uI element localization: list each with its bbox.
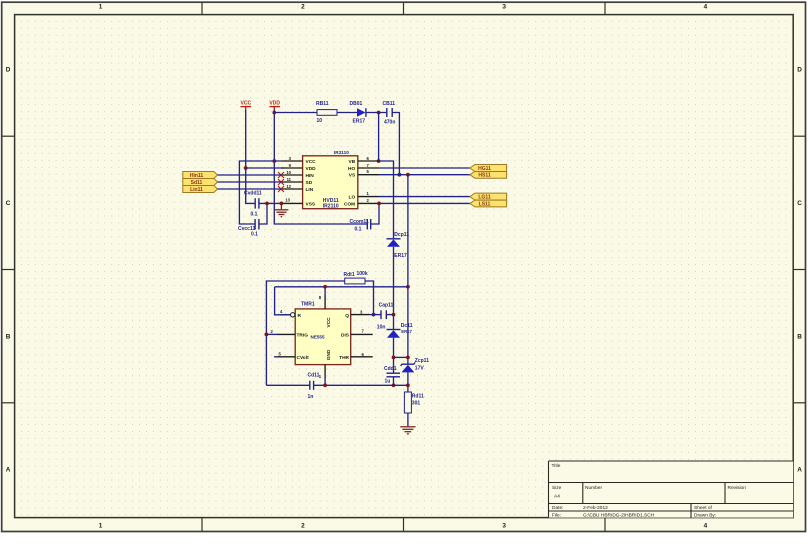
wire HO row to port HG11 <box>379 167 470 169</box>
svg-text:301: 301 <box>412 401 421 407</box>
svg-text:Dcp11: Dcp11 <box>394 232 409 238</box>
svg-text:3: 3 <box>502 522 506 529</box>
node Cdd1/bottom rail <box>392 383 396 387</box>
svg-text:4: 4 <box>704 4 708 11</box>
port HG11 <box>470 165 507 172</box>
svg-text:0.1: 0.1 <box>251 212 258 218</box>
wire Hin11 to pin10 <box>218 174 281 176</box>
wire bootstrap to RB11 <box>274 112 317 114</box>
svg-text:Lin11: Lin11 <box>190 187 203 193</box>
wire Cvdd11 to VSS node <box>259 202 281 204</box>
zone tick top 1 <box>201 2 203 14</box>
svg-text:R: R <box>298 313 302 319</box>
wire CB11 down to VS row <box>392 113 399 175</box>
svg-text:GND: GND <box>326 349 332 360</box>
svg-text:Cdd1: Cdd1 <box>384 366 397 372</box>
svg-text:Title: Title <box>552 463 561 469</box>
svg-text:TMR1: TMR1 <box>301 302 315 308</box>
svg-text:Zcp11: Zcp11 <box>415 358 429 364</box>
zone tick right 2 <box>793 269 805 271</box>
svg-text:RB11: RB11 <box>316 101 329 107</box>
svg-text:B: B <box>797 333 802 340</box>
wire Cdd1 to bottom rail <box>393 377 395 386</box>
IR2110 left pin numbers <box>285 156 291 203</box>
wire Lin11 to pin12 <box>218 188 281 190</box>
svg-text:4: 4 <box>704 522 708 529</box>
svg-text:IR2110: IR2110 <box>323 204 339 210</box>
port HS11 <box>470 172 507 179</box>
resistor Rd11 <box>404 392 424 413</box>
node on VB row <box>377 159 381 163</box>
svg-text:11: 11 <box>287 177 292 182</box>
title block <box>549 461 794 518</box>
svg-text:12: 12 <box>286 184 291 189</box>
port LS11 <box>470 200 507 207</box>
svg-text:G:\CBU HBRIDG-2\HBRID1.SCH: G:\CBU HBRIDG-2\HBRID1.SCH <box>583 513 655 519</box>
svg-text:HO: HO <box>348 166 355 172</box>
wire LO row to port LG11 <box>379 196 470 198</box>
wire Rdt1 to Q row <box>365 281 374 315</box>
power port VDD <box>269 101 280 110</box>
node VCC / pin9 <box>244 166 248 170</box>
IR2110 left pins <box>281 161 303 203</box>
svg-text:ER17: ER17 <box>394 253 407 259</box>
node Dc11/zener link <box>392 356 396 360</box>
svg-text:COM: COM <box>344 201 355 207</box>
ground bottom <box>400 427 415 434</box>
svg-text:THR: THR <box>339 355 349 361</box>
svg-text:2: 2 <box>301 4 305 11</box>
svg-text:B: B <box>6 333 11 340</box>
wire pin1 riser to rail <box>324 378 326 385</box>
svg-text:A: A <box>797 467 802 474</box>
node VDD / bootstrap <box>272 111 276 115</box>
wire Cap11 to riser node <box>386 314 393 316</box>
svg-text:2-Feb-2012: 2-Feb-2012 <box>583 505 608 511</box>
node pin8/rail <box>323 285 327 289</box>
svg-text:DIS: DIS <box>341 333 350 339</box>
svg-text:10n: 10n <box>377 325 386 331</box>
title block texts <box>552 463 747 519</box>
svg-text:Q: Q <box>345 313 349 319</box>
zone letters right <box>797 67 802 474</box>
port Lin11 <box>183 186 218 193</box>
node VDD / pin3 row <box>272 159 276 163</box>
svg-text:Cd11: Cd11 <box>308 372 320 378</box>
IR2110 right pin numbers <box>367 156 370 203</box>
svg-text:IR2110: IR2110 <box>334 150 349 155</box>
wire pin9 row <box>246 167 284 169</box>
svg-text:LS11: LS11 <box>479 201 491 207</box>
node ground/VSS row <box>280 202 284 206</box>
svg-text:Rdt1: Rdt1 <box>344 272 355 278</box>
svg-text:LO: LO <box>349 195 356 201</box>
NE555 pin numbers <box>271 295 365 379</box>
wire Sd11 to pin11 <box>218 181 281 183</box>
zone letters left <box>6 67 11 474</box>
diode Dcp11 <box>387 232 410 259</box>
wire DB01 to node <box>366 112 387 114</box>
svg-text:File:: File: <box>552 513 561 519</box>
resistor RB11 <box>316 101 337 124</box>
wire VCC stem down to Cvdd11 <box>246 110 256 203</box>
resistor Rdt1 <box>344 271 368 284</box>
svg-text:0.1: 0.1 <box>251 231 258 237</box>
svg-text:10: 10 <box>286 170 291 175</box>
wire pin3 row + left rail down to Cvcc11 <box>239 161 281 224</box>
diode DB01 <box>350 101 366 125</box>
capacitor Ccom11 <box>350 219 371 233</box>
wire Dc11 to node <box>393 338 395 373</box>
svg-text:DB01: DB01 <box>350 101 363 107</box>
wire left rail (Rdt1 to bottom) <box>266 281 344 385</box>
IR2110 left pin names <box>306 159 317 207</box>
wire link to zener riser <box>394 356 408 358</box>
svg-text:VS: VS <box>349 173 356 179</box>
svg-text:HIN: HIN <box>306 173 315 179</box>
zone tick left 1 <box>2 135 15 137</box>
capacitor Cvcc11 <box>238 219 259 237</box>
svg-text:0.1: 0.1 <box>355 226 362 232</box>
svg-text:D: D <box>6 67 11 74</box>
diode Dc11 <box>387 323 413 338</box>
op-amp U1 : IC HVD11 IR2110 body <box>303 150 358 210</box>
svg-text:C: C <box>797 200 802 207</box>
svg-text:Ccom11: Ccom11 <box>350 219 369 225</box>
svg-text:17V: 17V <box>415 365 425 371</box>
wire VS riser down <box>407 175 409 364</box>
wire NE555 VCC rail <box>275 286 408 288</box>
node TRIG/left rail <box>265 333 269 337</box>
svg-text:VDD: VDD <box>306 166 317 172</box>
wire pin8 riser <box>324 287 326 295</box>
port Sd11 <box>183 179 218 186</box>
wire NE555 bottom rail <box>266 384 309 386</box>
svg-text:CB11: CB11 <box>383 101 396 107</box>
zone tick bottom 2 <box>403 518 405 532</box>
svg-text:SD: SD <box>306 180 313 186</box>
wire COM row to port LS11 <box>379 202 470 204</box>
ground at VSS <box>274 203 288 216</box>
zone numbers top <box>99 4 708 11</box>
svg-text:VSS: VSS <box>306 201 316 207</box>
svg-text:VCC: VCC <box>326 317 332 328</box>
wire zener to bottom rail <box>407 372 409 392</box>
zone numbers bottom <box>99 522 708 529</box>
svg-text:HS11: HS11 <box>478 173 490 179</box>
svg-text:D: D <box>797 67 802 74</box>
svg-text:10: 10 <box>317 118 323 124</box>
svg-text:3: 3 <box>502 4 506 11</box>
zone tick right 3 <box>793 402 805 404</box>
svg-text:470n: 470n <box>384 119 395 125</box>
timer U2 : NE555 TMR1 body <box>295 302 351 365</box>
svg-text:VCC: VCC <box>306 159 317 165</box>
zone tick left 3 <box>2 402 15 404</box>
wire RB11 to DB01 <box>337 112 357 114</box>
node zener/bottom rail <box>406 383 410 387</box>
NE555 pins <box>277 295 373 378</box>
no-ERC mark pin11 <box>278 179 284 185</box>
node COM row <box>377 202 381 206</box>
wire R pin to VCC rail <box>275 287 291 315</box>
svg-text:Dc11: Dc11 <box>401 323 413 329</box>
IR2110 right pins <box>358 161 379 203</box>
wire VB row to riser <box>379 161 394 238</box>
wire VS row to port HS11 <box>379 174 470 176</box>
svg-text:Cvdd11: Cvdd11 <box>244 190 262 196</box>
IR2110 right pin names <box>344 159 356 207</box>
wire Dc11 anode down <box>393 315 395 330</box>
svg-text:TRIG: TRIG <box>297 333 309 339</box>
svg-text:C: C <box>6 200 11 207</box>
zener Zcp11 <box>401 358 430 373</box>
svg-text:ER17: ER17 <box>401 329 412 334</box>
wire Q row to Cap11 <box>369 314 381 316</box>
svg-text:A: A <box>6 467 11 474</box>
svg-text:VB: VB <box>349 159 356 165</box>
node VS/down riser <box>406 173 410 177</box>
zone tick top 3 <box>604 2 606 14</box>
svg-text:Size: Size <box>552 485 562 491</box>
svg-text:Cap11: Cap11 <box>379 303 394 309</box>
svg-text:1n: 1n <box>308 394 314 400</box>
svg-text:Sheet of: Sheet of <box>694 505 713 511</box>
svg-text:VDD: VDD <box>269 101 280 107</box>
node CB11 / VS <box>398 173 402 177</box>
capacitor Cd11 <box>308 372 320 400</box>
wire VDD vertical down to Ccom11 rail <box>274 110 367 224</box>
node Cap11/riser <box>392 313 396 317</box>
wire Dcp11 down to Q node <box>393 247 395 315</box>
wire node down to VB row <box>378 113 380 162</box>
zone tick bottom 1 <box>201 518 203 532</box>
capacitor Cap11 <box>377 303 394 331</box>
zone tick right 1 <box>793 135 805 137</box>
capacitor Cvdd11 <box>244 190 262 217</box>
node link/riser <box>406 356 410 360</box>
svg-text:ER17: ER17 <box>353 118 366 124</box>
node Rdt1/Q row <box>372 313 376 317</box>
svg-text:A4: A4 <box>554 494 560 500</box>
svg-text:Revision: Revision <box>728 485 747 491</box>
svg-text:13: 13 <box>285 198 290 203</box>
svg-text:CVolt: CVolt <box>297 355 310 361</box>
svg-text:VCC: VCC <box>241 101 252 107</box>
svg-text:100k: 100k <box>357 271 368 277</box>
svg-text:Rd11: Rd11 <box>412 394 424 400</box>
wire Ccom11 riser to COM row <box>371 203 379 224</box>
svg-text:1: 1 <box>99 522 103 529</box>
zone tick top 2 <box>403 2 405 14</box>
svg-text:NE555: NE555 <box>311 335 325 340</box>
capacitor Cdd1 <box>384 366 400 385</box>
node riser / NE555 VCC rail <box>406 285 410 289</box>
no-ERC mark pin10 <box>278 172 284 178</box>
wire bottom rail right part <box>314 384 408 386</box>
svg-text:1u: 1u <box>385 379 391 385</box>
title block background <box>549 461 794 518</box>
svg-text:2: 2 <box>301 522 305 529</box>
no-ERC mark pin12 <box>278 186 284 192</box>
zone tick left 2 <box>2 269 15 271</box>
wire Cvcc11 riser to VSS row <box>259 203 267 224</box>
svg-text:Drawn By:: Drawn By: <box>694 513 716 519</box>
NE555 pin names <box>297 313 350 361</box>
svg-text:Number: Number <box>585 485 602 491</box>
NE555 reset bubble <box>291 313 295 317</box>
node VSS/caps <box>265 202 269 206</box>
wire TRIG stub <box>266 333 277 335</box>
svg-text:1: 1 <box>99 4 103 11</box>
power port VCC <box>241 101 252 110</box>
wire CVolt stub <box>274 356 277 358</box>
svg-text:Date:: Date: <box>552 505 563 511</box>
zone tick bottom 3 <box>604 518 606 532</box>
node pin1/rail <box>323 383 327 387</box>
capacitor CB11 <box>383 101 396 126</box>
port Hin11 <box>183 172 218 179</box>
port LG11 <box>470 193 507 200</box>
node bootstrap/VB <box>377 111 381 115</box>
svg-text:LIN: LIN <box>306 187 314 193</box>
wire Rd11 to ground <box>407 413 409 426</box>
